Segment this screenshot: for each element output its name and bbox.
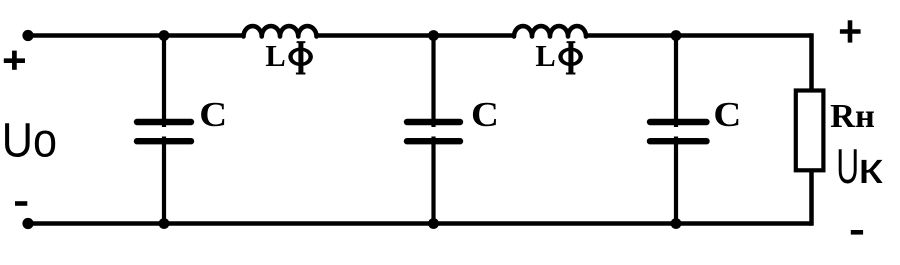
wire top: inductor L2 to right corner bbox=[586, 33, 812, 38]
junction dot C1 bottom bbox=[159, 218, 170, 229]
wire top: inductor L1 to inductor L2 bbox=[317, 33, 515, 38]
junction dot C3 top bbox=[671, 30, 682, 41]
capacitor C2 top lead bbox=[431, 36, 435, 128]
wire top: left terminal to inductor L1 bbox=[28, 33, 244, 38]
polarity + (input) bbox=[4, 51, 25, 70]
polarity - (output) bbox=[851, 230, 863, 235]
wire bottom rail bbox=[28, 221, 812, 226]
junction dot C1 top bbox=[159, 30, 170, 41]
terminal dot input - bbox=[22, 218, 33, 229]
wire right vertical top (to resistor) bbox=[809, 36, 811, 91]
svg-text:C: C bbox=[199, 95, 227, 134]
svg-text:Rн: Rн bbox=[830, 98, 875, 134]
label Uк (output voltage) bbox=[836, 138, 883, 194]
capacitor C3 plates bbox=[650, 119, 707, 125]
capacitor C1 bottom lead bbox=[162, 137, 166, 224]
capacitor C3 bottom lead bbox=[674, 137, 678, 224]
wire right vertical bottom (from resistor) bbox=[809, 171, 811, 224]
label Lф (L2) bbox=[535, 39, 582, 75]
svg-text:L: L bbox=[265, 39, 285, 73]
junction dot C2 bottom bbox=[428, 218, 439, 229]
svg-text:C: C bbox=[713, 95, 741, 134]
inductor L1 (Lф) coil bbox=[244, 26, 317, 36]
resistor Rн body bbox=[796, 91, 824, 171]
svg-text:к: к bbox=[858, 143, 884, 193]
label Lф (L1) bbox=[265, 39, 313, 75]
capacitor C1 top lead bbox=[162, 36, 166, 128]
junction dot C2 top bbox=[428, 30, 439, 41]
capacitor C2 bottom lead bbox=[431, 137, 435, 224]
svg-text:C: C bbox=[471, 95, 499, 134]
svg-text:Uo: Uo bbox=[2, 113, 57, 167]
polarity - (input) bbox=[15, 201, 27, 206]
inductor L2 (Lф) coil bbox=[514, 26, 586, 36]
svg-text:L: L bbox=[535, 39, 555, 73]
junction dot C3 bottom bbox=[671, 218, 682, 229]
terminal dot input + bbox=[22, 30, 33, 41]
capacitor C1 plates bbox=[137, 119, 191, 125]
polarity + (output) bbox=[840, 20, 861, 42]
capacitor C2 plates bbox=[407, 119, 460, 125]
capacitor C3 top lead bbox=[674, 36, 678, 128]
svg-text:U: U bbox=[836, 138, 859, 194]
